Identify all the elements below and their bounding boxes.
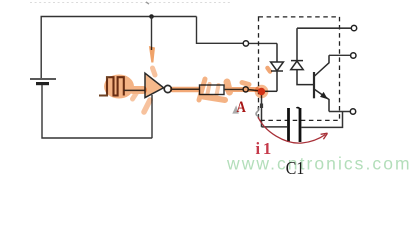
wire top rail bbox=[41, 16, 197, 18]
svg-text:C1: C1 bbox=[286, 158, 304, 177]
node A red dot bbox=[258, 88, 265, 95]
wire collector to terminal 2 bbox=[329, 54, 351, 56]
svg-text:A: A bbox=[237, 99, 247, 117]
transistor emitter arrowhead bbox=[320, 92, 328, 99]
wire diode1 to node A bbox=[262, 90, 278, 92]
svg-text:i1: i1 bbox=[256, 139, 275, 158]
wire inverter ground pin bbox=[151, 95, 153, 138]
diode D1 (down) bbox=[271, 43, 284, 91]
wire terminal to node A bbox=[248, 90, 261, 127]
wire junction drop bbox=[151, 17, 153, 51]
resistor R1 bbox=[200, 85, 225, 95]
red arrowhead bbox=[321, 133, 328, 139]
terminal circle A input bbox=[243, 87, 248, 92]
svg-text:www.cntronics.com: www.cntronics.com bbox=[226, 153, 412, 173]
wire inverter output bbox=[171, 88, 199, 90]
terminal circle 2 bbox=[351, 53, 356, 58]
dashed box optocoupler bbox=[259, 17, 340, 121]
red current arc i1 bbox=[258, 117, 326, 143]
wire node A stub mark bbox=[260, 104, 263, 109]
battery B1 bbox=[30, 79, 56, 84]
gray smudge under A bbox=[232, 105, 239, 113]
wire top right step bbox=[197, 17, 244, 44]
wire resistor to terminal bbox=[224, 88, 243, 90]
capacitor C1 plates bbox=[289, 108, 301, 142]
transistor Q1 bbox=[314, 55, 329, 111]
wire D2 top to terminal 1 bbox=[297, 27, 351, 29]
inverter U1 bbox=[145, 73, 164, 97]
wire circle to diode bbox=[249, 42, 277, 44]
wire left rail upper bbox=[40, 17, 42, 79]
terminal circle 3 bbox=[350, 109, 355, 114]
wire node A to capacitor bbox=[262, 126, 288, 128]
orange flame below junction bbox=[149, 46, 155, 63]
orange highlight strokes bbox=[104, 68, 270, 112]
scan noise top edge bbox=[30, 2, 232, 4]
wire waveform to inverter bbox=[124, 89, 145, 91]
pulse waveform bbox=[99, 77, 124, 95]
terminal circle 1 bbox=[351, 25, 356, 30]
orange glow node A bbox=[255, 85, 269, 99]
diode D2 (up) bbox=[291, 28, 313, 84]
terminal circle top input bbox=[243, 41, 248, 46]
wire left rail lower bbox=[42, 85, 152, 138]
wire capacitor to right bbox=[302, 112, 343, 128]
node junction dot bbox=[149, 14, 154, 19]
gray smudge bbox=[256, 108, 259, 117]
wire emitter to terminal 3 bbox=[329, 111, 350, 113]
